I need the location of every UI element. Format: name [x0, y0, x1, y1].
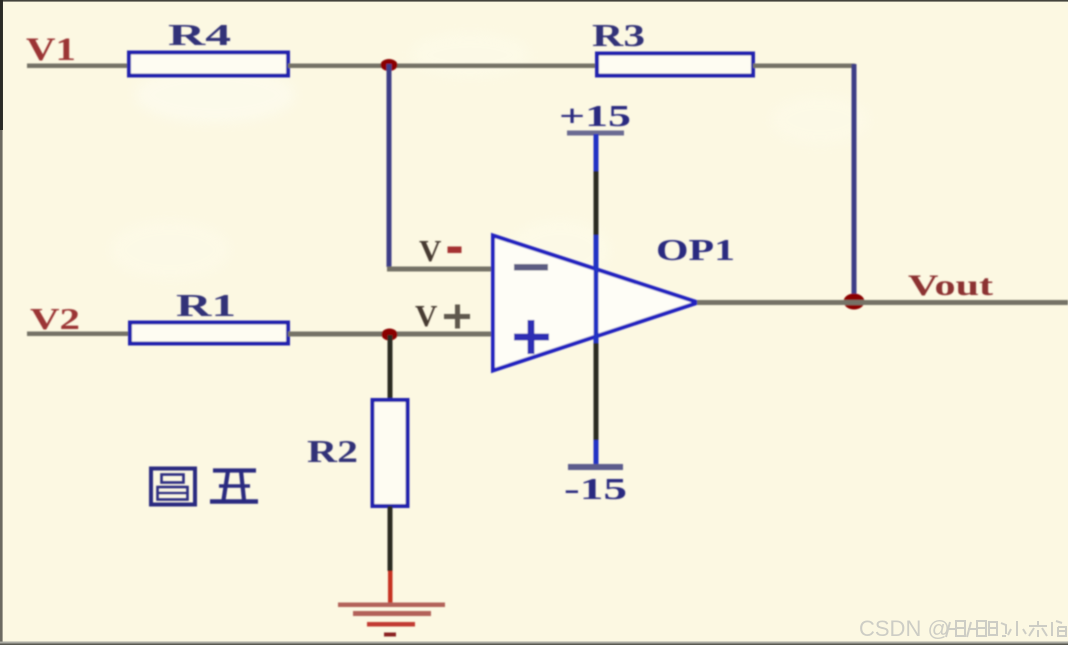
svg-text:CSDN @: CSDN @ — [859, 616, 950, 641]
node junction A (R4/R3/V- net) — [381, 59, 398, 71]
wire +15 down (black) — [594, 171, 599, 235]
wire V1 input — [27, 64, 131, 69]
node junction output — [844, 294, 865, 310]
svg-text:V: V — [415, 298, 438, 333]
wire R4 to R3 — [288, 64, 597, 69]
svg-text:R3: R3 — [592, 17, 645, 53]
resistor R3 — [597, 54, 753, 76]
svg-text:R1: R1 — [176, 287, 236, 323]
ground bar 1 — [338, 603, 445, 608]
op-amp non-inverting input plus symbol — [514, 320, 549, 354]
power -15 bar — [568, 464, 623, 470]
watermark CSDN @猫猫的小茶馆 — [859, 616, 1066, 641]
wire V2 input — [27, 332, 131, 337]
caption 圖五 character 五 — [210, 471, 258, 502]
label V- — [419, 233, 462, 268]
svg-text:Vout: Vout — [908, 269, 993, 302]
wire +15 stub (blue) — [594, 134, 599, 171]
wire op-amp output — [697, 300, 1068, 305]
frame edges (decorative) — [0, 0, 1068, 2]
wire R1 to op-amp V+ — [288, 332, 493, 337]
svg-text:-15: -15 — [564, 471, 627, 506]
resistor R2 — [373, 400, 408, 506]
caption 圖五 character 圖 — [151, 469, 195, 505]
ground bar 2 — [353, 611, 431, 616]
resistor R4 — [129, 53, 288, 76]
wire junction B to R2 — [388, 335, 393, 400]
wire R2 to ground (black) — [388, 506, 393, 571]
resistor R1 — [130, 323, 288, 344]
power +15 bar — [567, 131, 624, 136]
wire -15 down (black) — [594, 343, 599, 440]
ground bar 3 — [367, 622, 415, 627]
wire -15 stub (blue) — [594, 440, 599, 466]
op-amp inverting input minus symbol — [514, 264, 548, 271]
wire through op-amp (blue) — [594, 235, 599, 343]
wire V- horizontal to op-amp — [387, 267, 493, 272]
svg-text:OP1: OP1 — [656, 232, 735, 267]
op-amp U1 triangle — [493, 236, 698, 371]
ground bar 4 — [384, 633, 396, 637]
node junction B (V+/R2) — [382, 329, 398, 341]
wire V- vertical net — [387, 64, 392, 267]
svg-text:R2: R2 — [307, 433, 358, 469]
wire R3 to feedback corner — [753, 64, 855, 69]
svg-text:V1: V1 — [26, 32, 76, 68]
svg-text:V2: V2 — [30, 301, 80, 336]
svg-text:+15: +15 — [559, 98, 631, 133]
wire R2 to ground (red) — [388, 571, 393, 604]
svg-text:V: V — [419, 233, 442, 268]
svg-text:R4: R4 — [168, 17, 231, 52]
wire feedback vertical net — [852, 64, 857, 302]
label V+ — [415, 298, 470, 333]
